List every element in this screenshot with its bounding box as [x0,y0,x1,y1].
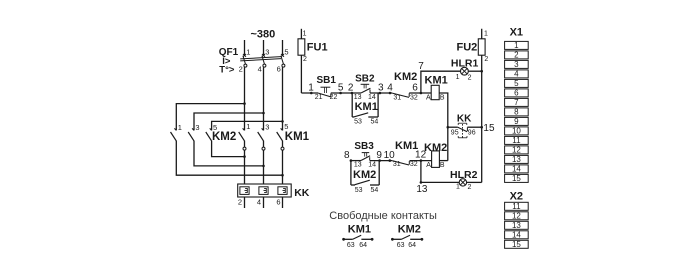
svg-text:6: 6 [412,83,418,94]
wire L2 QF1 to KM1 contact [263,67,265,130]
node 5 [338,83,344,95]
svg-text:B: B [440,94,445,101]
svg-text:KM2: KM2 [353,169,376,181]
svg-text:~380: ~380 [251,29,276,41]
svg-text:2: 2 [239,65,243,74]
terminal block X2 [505,191,529,249]
svg-text:3: 3 [514,60,519,69]
svg-text:32: 32 [410,161,418,168]
svg-text:7: 7 [418,61,424,72]
svg-text:2: 2 [238,198,242,207]
wire L1 QF1 to KM1 contact [244,67,246,130]
wire L3 supply drop [282,40,284,55]
wire node 12 down to node 13 [420,161,422,183]
wire KM1 coil B to common point [439,93,448,161]
svg-text:53: 53 [355,187,363,194]
node 7 label [418,61,424,72]
svg-text:64: 64 [408,242,416,249]
svg-text:2: 2 [303,56,307,63]
svg-text:14: 14 [512,231,521,240]
svg-text:X1: X1 [510,27,523,39]
svg-text:3: 3 [265,48,269,57]
svg-text:SB2: SB2 [355,74,375,85]
node common coil junction [447,126,450,129]
node tap L3 branch [281,120,284,123]
coil KM1 [425,75,448,102]
node 12 [415,150,427,162]
wire control rail 1 [301,92,431,94]
svg-text:5: 5 [514,79,519,88]
net label ~380 [251,29,276,41]
node 15 label [483,123,495,134]
svg-text:14: 14 [368,94,376,101]
contactor KM1 power contacts 1-3-5 [239,122,310,143]
free contact KM2 63-64 [391,223,423,249]
svg-text:9: 9 [514,117,519,126]
svg-text:31: 31 [393,161,401,168]
wire HLR1 to FU2 rail [468,70,483,73]
svg-text:5: 5 [284,48,288,57]
svg-text:2: 2 [484,56,488,63]
contactor KM2 power contacts 1-3-5 [171,123,237,143]
svg-text:SB1: SB1 [317,75,337,86]
svg-text:9: 9 [376,150,382,161]
svg-text:15: 15 [483,123,495,134]
svg-text:1: 1 [456,184,460,191]
wire control rail 2 [351,160,432,162]
svg-text:A: A [426,162,431,169]
svg-text:3: 3 [265,123,269,132]
wire outputs below KK [245,197,283,208]
svg-text:6: 6 [514,89,519,98]
node 6 [412,83,422,95]
svg-text:KM1: KM1 [348,223,371,235]
free contacts heading [329,210,437,222]
svg-text:13: 13 [354,94,362,101]
node tap L2 branch [262,112,265,115]
svg-text:2: 2 [468,184,472,191]
svg-text:4: 4 [387,83,393,94]
svg-text:32: 32 [410,94,418,101]
svg-text:SB3: SB3 [354,141,374,152]
svg-text:96: 96 [468,129,476,136]
svg-text:4: 4 [257,198,261,207]
svg-text:14: 14 [512,165,521,174]
svg-text:63: 63 [397,242,405,249]
svg-text:KM2: KM2 [212,131,236,143]
svg-text:KK: KK [294,187,310,199]
svg-text:13: 13 [354,162,362,169]
svg-text:KM2: KM2 [398,223,421,235]
svg-text:A: A [426,94,431,101]
svg-text:10: 10 [512,127,521,136]
wire crossover KM2 contact3 to L2 [194,141,265,168]
svg-text:FU1: FU1 [307,42,328,54]
svg-text:21: 21 [315,94,323,101]
wire KM1 contact outputs with connectors [243,141,284,185]
svg-text:10: 10 [384,150,396,161]
svg-text:1: 1 [303,30,307,37]
pushbutton SB2 NO 13-14 [354,74,376,101]
svg-text:5: 5 [338,83,344,94]
svg-text:Свободные контакты: Свободные контакты [329,210,437,222]
node 10 [384,150,396,162]
node 4 [387,83,393,95]
wire node 13 to HLR2 [421,181,460,183]
node 9 [376,150,382,162]
svg-text:6: 6 [277,65,281,74]
svg-text:54: 54 [371,187,379,194]
wire L3 QF1 to KM1 contact [282,67,284,130]
wire L1 supply drop [244,40,246,55]
wire branch L2 to KM2 contact 3 [194,113,264,130]
node 2 [348,83,354,95]
svg-text:8: 8 [344,150,350,161]
svg-text:22: 22 [330,94,338,101]
pushbutton SB1 NC 21-22 [315,75,338,101]
svg-text:4: 4 [258,65,262,74]
svg-text:7: 7 [514,98,519,107]
wire node 7 branch to HLR1 [421,71,461,93]
thermal relay KK heater elements [238,184,310,207]
svg-text:2: 2 [348,83,354,94]
svg-text:8: 8 [514,108,519,117]
svg-text:5: 5 [284,122,288,131]
pushbutton SB3 NO 13-14 [354,141,376,169]
svg-text:95: 95 [451,129,459,136]
svg-text:53: 53 [354,119,362,126]
svg-text:12: 12 [512,212,521,221]
lamp HLR1 [451,58,479,82]
svg-text:63: 63 [347,242,355,249]
svg-text:11: 11 [512,136,521,145]
svg-text:6: 6 [276,198,280,207]
svg-text:3: 3 [195,123,199,132]
svg-text:2: 2 [468,75,472,82]
auxiliary contact KM2 31-32 NC [392,71,418,101]
auxiliary contact KM2 53-54 parallel SB3 [351,161,379,194]
node 1 [308,83,314,95]
node tap L1 branch [243,102,246,105]
free contact KM1 63-64 [342,223,373,249]
wire branch L3 to KM2 contact 5 [212,121,283,130]
node 3 [378,83,384,95]
terminal block X1 [505,27,529,184]
wire crossover KM2 contact1 to L3 [176,141,284,177]
svg-text:1: 1 [178,123,182,132]
svg-text:2: 2 [514,51,519,60]
svg-text:1: 1 [308,83,314,94]
svg-text:1: 1 [246,122,250,131]
circuit breaker QF1 [219,47,289,75]
svg-text:1: 1 [484,30,488,37]
wire branch L1 to KM2 contact 1 [176,104,244,131]
svg-text:31: 31 [393,94,401,101]
svg-text:15: 15 [512,174,521,183]
svg-text:X2: X2 [510,191,523,203]
svg-text:64: 64 [359,242,367,249]
svg-text:B: B [440,162,445,169]
svg-text:54: 54 [371,119,379,126]
svg-text:11: 11 [512,202,521,211]
wire crossover KM2 contact5 to L1 [212,141,246,158]
svg-text:3: 3 [378,83,384,94]
svg-text:KM1: KM1 [355,101,378,113]
svg-text:FU2: FU2 [457,42,478,54]
node 13 [416,181,428,195]
coil KM2 [424,142,447,169]
lamp HLR2 [450,169,478,191]
svg-text:13: 13 [512,155,521,164]
svg-text:14: 14 [368,162,376,169]
svg-text:15: 15 [512,240,521,249]
wire KM2 coil B to common point [439,160,447,162]
auxiliary contact KM1 31-32 NC [392,140,418,168]
svg-text:12: 12 [512,146,521,155]
fuse FU2 [457,29,489,183]
auxiliary contact KM1 53-54 parallel SB2 [352,93,378,126]
svg-text:13: 13 [512,221,521,230]
svg-text:KM2: KM2 [394,71,417,83]
svg-text:1: 1 [246,48,250,57]
wire HLR2 to FU2 rail corner [466,181,481,183]
svg-text:1: 1 [456,74,460,81]
svg-text:4: 4 [514,70,519,79]
svg-text:T°>: T°> [219,65,235,76]
fuse FU1 [298,29,328,93]
svg-text:13: 13 [416,184,428,195]
wire L2 supply drop [263,40,265,55]
svg-text:KM1: KM1 [285,131,310,143]
svg-text:1: 1 [514,41,519,50]
node 8 [344,150,352,162]
thermal relay contact KK 95-96 [448,114,483,138]
